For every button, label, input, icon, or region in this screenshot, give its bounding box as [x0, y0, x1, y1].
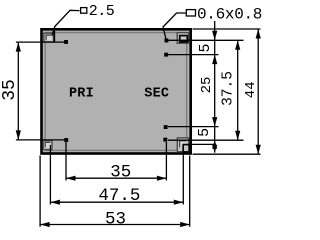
- svg-text:5: 5: [196, 128, 213, 137]
- body inner outline: [45, 33, 187, 151]
- svg-text:SEC: SEC: [144, 87, 169, 102]
- right extension line body bottom: [193, 153, 261, 155]
- arrow up at row4: [212, 140, 217, 148]
- pin dot secondary row3: [164, 125, 168, 129]
- dimension 47.5: line: [50, 201, 183, 203]
- leader line square pad 2.5: [52, 10, 80, 35]
- arrow down 37.5: [235, 131, 240, 141]
- svg-text:5: 5: [197, 43, 214, 52]
- svg-text:47.5: 47.5: [98, 186, 140, 206]
- dimension 53: right arrow: [180, 222, 190, 227]
- arrow down 44: [256, 145, 261, 155]
- right extension line body top: [193, 28, 261, 30]
- pad top-right: [177, 33, 189, 44]
- dimension 53: line: [40, 224, 190, 226]
- bottom extension line pin right: [165, 142, 167, 181]
- transformer body: [42, 29, 191, 153]
- dimension 44 line: [257, 29, 259, 154]
- right extension line pad row: [190, 143, 215, 145]
- dimension 47.5: left arrow: [50, 200, 60, 205]
- right extension line pin row2: [168, 54, 219, 56]
- dimension 37.5 line: [237, 40, 239, 140]
- pin dot primary bottom: [64, 138, 68, 142]
- right extension line pin row1: [169, 39, 244, 41]
- dimension 5/25/5 line: [214, 21, 216, 153]
- dimension 35 bottom: line: [66, 177, 166, 179]
- pin dot primary top: [64, 40, 68, 44]
- svg-text:37.5: 37.5: [220, 71, 236, 106]
- svg-text:PRI: PRI: [69, 86, 94, 101]
- pad top-left black edge: [53, 29, 55, 43]
- left extension line top (pin row): [16, 41, 68, 43]
- rect symbol 0.6x0.8: [186, 10, 195, 16]
- svg-text:44: 44: [243, 81, 259, 98]
- arrow up 37.5: [235, 40, 240, 50]
- square symbol 2.5: [81, 8, 87, 14]
- dimension 47.5: right arrow: [174, 200, 184, 205]
- pin dot secondary row4: [163, 138, 167, 142]
- svg-text:53: 53: [105, 209, 126, 228]
- svg-text:35: 35: [0, 79, 20, 101]
- bottom extension line body left: [39, 156, 41, 227]
- pin dot secondary row2: [164, 53, 168, 57]
- dimension 35 left: top arrow: [16, 42, 21, 52]
- bottom extension line pin left: [65, 142, 67, 181]
- dimension 35 left: bottom arrow: [16, 130, 21, 140]
- right extension line pin row4: [168, 139, 244, 141]
- leader line pin 0.6x0.8: [163, 13, 186, 40]
- bottom extension line pad right: [182, 148, 184, 205]
- dimension 53: left arrow: [40, 222, 50, 227]
- left extension line bottom (pin row): [16, 139, 68, 141]
- bottom extension line body right: [189, 156, 191, 227]
- arrow down at row3: [212, 117, 217, 127]
- pad bottom-right: [177, 138, 189, 152]
- pin dot secondary row1: [165, 39, 169, 43]
- dimension 35 bottom: left arrow: [66, 176, 76, 181]
- svg-text:25: 25: [199, 77, 215, 94]
- svg-text:0.6x0.8: 0.6x0.8: [197, 6, 262, 24]
- pad bottom-left: [43, 141, 52, 150]
- arrow up 44: [256, 29, 261, 39]
- arrow up at row2: [212, 55, 217, 65]
- bottom extension line pad left: [49, 145, 51, 205]
- svg-text:2.5: 2.5: [89, 3, 115, 20]
- dimension 35 left: line: [17, 42, 19, 140]
- svg-text:35: 35: [110, 162, 131, 182]
- dimension 35 bottom: right arrow: [157, 176, 167, 181]
- arrow down at row1: [212, 31, 217, 41]
- arrow down at body bottom: [212, 145, 217, 153]
- pad top-left: [44, 33, 54, 42]
- right extension line pin row3: [168, 126, 219, 128]
